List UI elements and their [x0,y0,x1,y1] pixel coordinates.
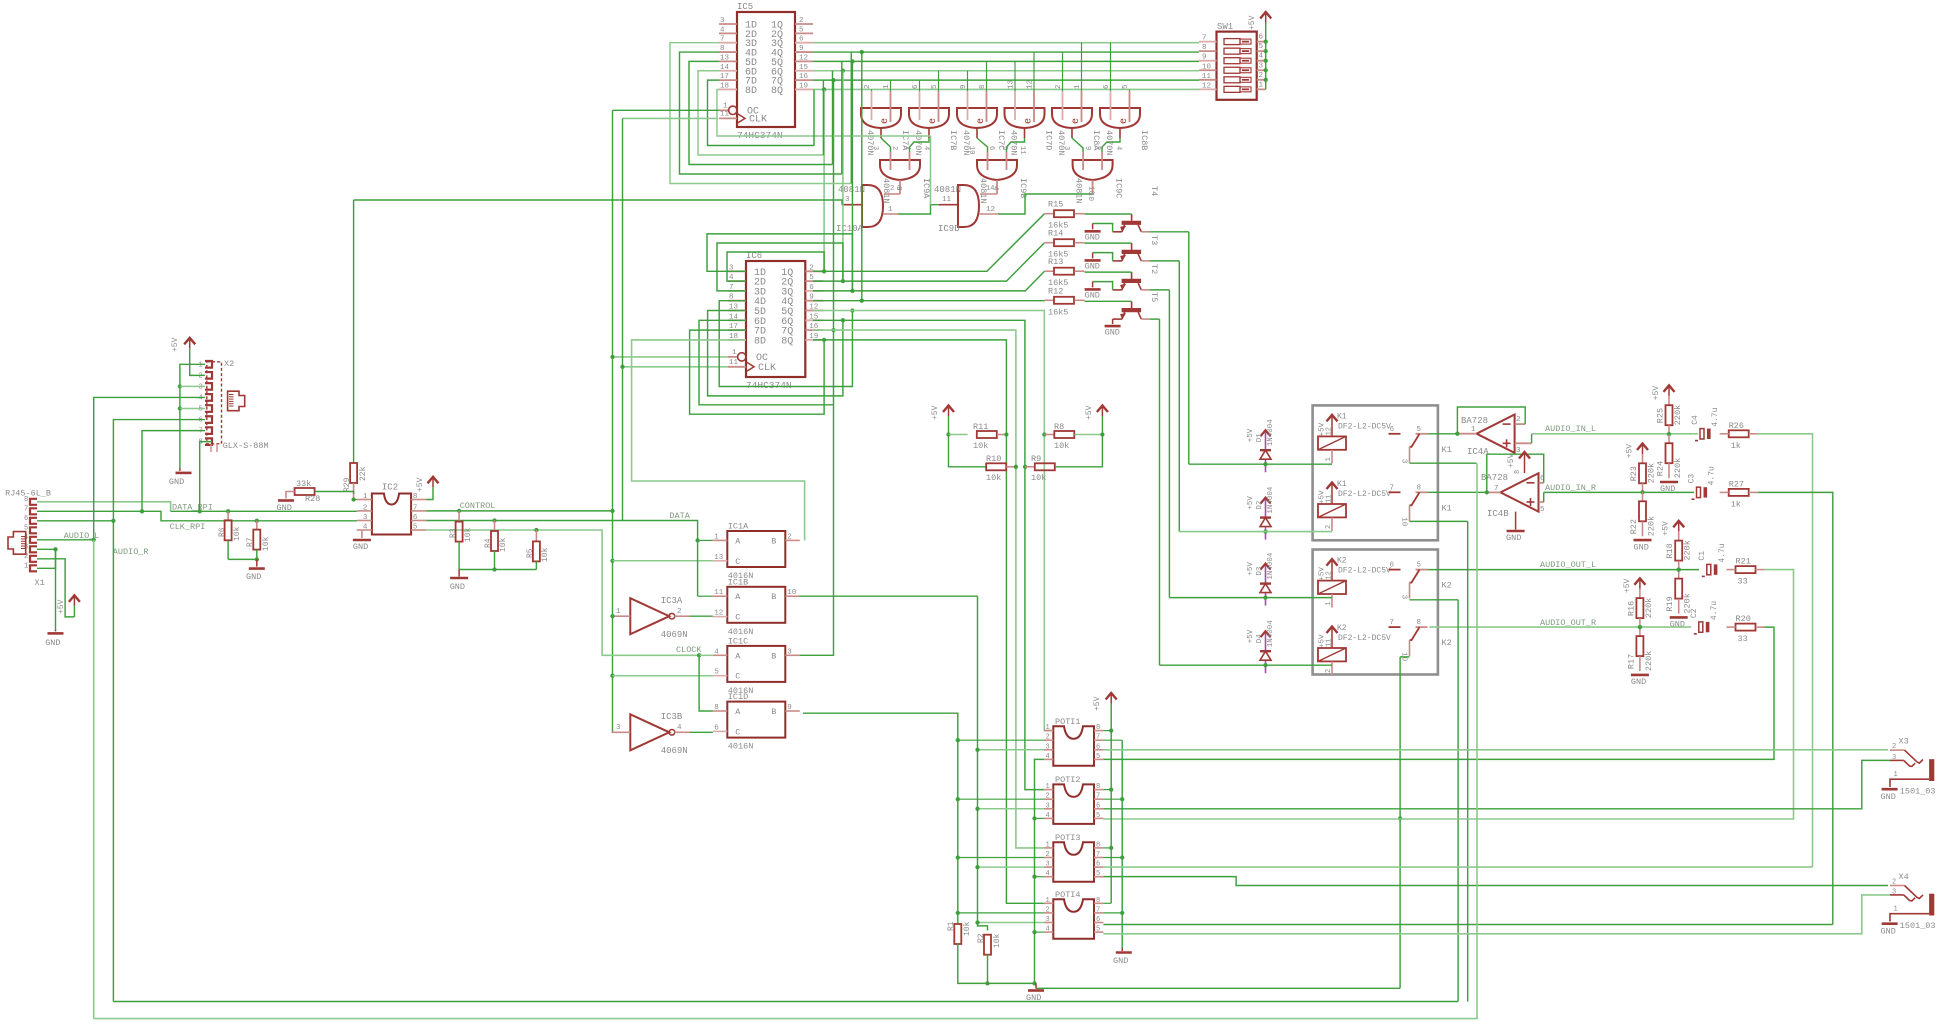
svg-text:8: 8 [979,84,987,89]
svg-text:T3: T3 [1149,235,1159,245]
capacitor C4 4.7u [1700,429,1704,439]
svg-text:4: 4 [714,648,719,656]
svg-text:220k: 220k [1683,540,1693,560]
xor-gate 4070N IC7B [909,108,949,128]
ground R17 [1631,674,1649,677]
svg-text:4070N: 4070N [913,130,923,156]
svg-text:R27: R27 [1729,479,1744,489]
svg-text:GND: GND [1631,677,1646,687]
wire IC8A out to IC9C [1072,138,1083,152]
svg-text:12: 12 [1202,82,1211,90]
IC optocoupler IC2 [372,494,411,535]
svg-text:GND: GND [1085,290,1100,300]
svg-text:C: C [735,613,740,623]
wire IC5 loop 8D [717,89,931,136]
svg-text:6: 6 [24,515,28,523]
svg-text:A: A [735,707,741,717]
svg-text:D1: D1 [1256,433,1264,443]
op-amp BA728 IC4B [1501,473,1539,511]
svg-text:POTI2: POTI2 [1055,775,1081,785]
svg-text:DATA_RPI: DATA_RPI [172,503,213,513]
svg-text:9: 9 [1202,54,1207,62]
svg-text:10k: 10k [986,473,1001,483]
svg-text:1: 1 [1046,841,1050,849]
svg-text:3: 3 [1259,62,1264,70]
svg-text:2: 2 [1046,734,1050,742]
net POTI2.6 to X3 pin3 riser [1103,760,1890,808]
svg-text:GND: GND [1085,261,1100,271]
svg-text:BA728: BA728 [1481,473,1508,483]
svg-text:2: 2 [864,84,872,89]
wire emitter GND T4 [1112,319,1114,324]
svg-text:6: 6 [714,724,719,732]
svg-text:C4: C4 [1691,415,1700,425]
svg-text:AUDIO_R: AUDIO_R [113,547,149,557]
wire CLOCK to IC1C.4/IC1D.8 [699,654,713,656]
svg-text:+5V: +5V [1247,562,1255,576]
ground X2 [176,472,192,475]
svg-text:1501_03: 1501_03 [1900,787,1936,797]
svg-text:DF2-L2-DC5V: DF2-L2-DC5V [1338,422,1391,431]
wire pin4 POTI3 [1035,876,1044,878]
svg-text:5: 5 [1259,43,1264,51]
wire X2.4 AUDIO_L [94,397,205,539]
ground R22 [1634,539,1652,542]
wire K1b.10 down to AUDIO_OUT_R [1410,520,1468,522]
svg-text:1k: 1k [1731,441,1741,451]
+5V supply at SW1 [1265,12,1267,23]
svg-text:8Q: 8Q [771,86,783,97]
svg-text:GND: GND [1881,927,1896,937]
svg-text:10: 10 [1202,63,1212,71]
svg-text:+5V: +5V [1623,578,1632,593]
svg-text:e: e [1071,118,1082,124]
net CLK row IC5 [623,117,719,119]
svg-text:T4: T4 [1149,186,1159,196]
svg-text:R4: R4 [484,538,493,548]
wire X2.8 riser [200,442,212,512]
svg-text:DF2-L2-DC5V: DF2-L2-DC5V [1338,490,1391,499]
potentiometer POTI4 [1053,899,1094,939]
svg-text:IC4B: IC4B [1487,509,1509,519]
svg-text:IC3A: IC3A [661,596,683,606]
and-gate 4081N IC10A [862,185,883,227]
junction 8Q [822,87,826,91]
svg-text:4: 4 [1046,926,1050,934]
svg-text:AUDIO_OUT_R: AUDIO_OUT_R [1540,618,1596,628]
svg-text:14: 14 [720,64,730,72]
ground X4 [1882,922,1898,925]
svg-text:POTI3: POTI3 [1055,833,1081,843]
svg-text:6: 6 [1103,84,1111,89]
svg-text:GND: GND [1113,956,1128,966]
resistor R25 220k [1668,396,1670,405]
svg-text:220k: 220k [1673,458,1683,478]
junction 5Q [850,59,854,63]
xor-gate 4070N IC8A [1052,108,1092,128]
svg-text:4070N: 4070N [1056,130,1066,156]
svg-text:4: 4 [922,146,930,150]
wire IC7B input A [919,80,921,91]
svg-text:7: 7 [24,505,28,513]
wire X2.7 DATA riser [142,431,205,512]
wire POTI pin3 rail [978,596,988,930]
svg-text:R15: R15 [1048,200,1063,210]
resistor R16 220k [1639,589,1641,598]
junction IC6 1Q [822,269,826,273]
svg-text:1: 1 [1046,897,1050,905]
relay coil K2 [1331,559,1333,570]
junction AUDIO_L [92,538,96,542]
analog switch 4016N IC1C [727,646,785,682]
wire IC4B +in [1543,492,1545,502]
ground R3 [450,577,468,580]
transistor T5 [1122,279,1142,283]
svg-text:K2: K2 [1442,638,1452,648]
relay coil K2 [1331,626,1333,637]
svg-text:A: A [735,592,741,602]
svg-text:R11: R11 [973,422,988,432]
+5V supply R11/R10 [948,405,950,416]
svg-text:4: 4 [720,26,725,34]
junction IC6 6Q [841,318,845,322]
wire D3 row to K2 coil [1169,597,1332,599]
svg-text:7: 7 [1096,734,1100,742]
svg-text:5: 5 [799,26,804,34]
svg-text:2: 2 [787,533,792,541]
svg-text:3: 3 [845,196,850,204]
svg-text:12: 12 [714,610,723,618]
svg-text:R17: R17 [1626,654,1636,669]
wire X1.3 X1.1 gnd chain [37,548,56,550]
svg-text:8Q: 8Q [781,336,793,347]
junction GND rail bottom [1032,981,1036,985]
net OC row IC5 [613,109,720,111]
net IC6 2Q to R14 diagonal [813,243,1045,281]
svg-text:X3: X3 [1899,737,1909,747]
op-amp BA728 IC4A [1477,415,1515,453]
svg-text:6: 6 [987,146,995,150]
svg-text:1: 1 [903,146,911,150]
wire IC6 loop 2Q-3D [717,243,843,291]
svg-text:14: 14 [986,185,994,193]
svg-text:IC7D: IC7D [1044,130,1054,150]
net CLK_RPI from X1.7 [37,511,357,521]
wire pin2 POTI2 [958,798,1044,800]
svg-text:IC1A: IC1A [728,522,749,532]
svg-text:GLX-S-88M: GLX-S-88M [223,441,269,451]
wire IC7C input A [967,71,969,91]
svg-text:2: 2 [1516,416,1521,424]
wire pin3 POTI3 [978,866,1044,868]
svg-text:33: 33 [1738,634,1748,644]
svg-text:17: 17 [720,73,729,81]
svg-text:4081N: 4081N [934,185,961,195]
ground POTI rail [1121,948,1123,951]
dip-switch SW1 [1217,32,1257,100]
svg-text:2: 2 [1046,793,1050,801]
svg-text:220k: 220k [1673,405,1683,425]
wire IC1D.9 to POTI pin2 rail [803,713,958,922]
svg-text:4: 4 [199,394,203,402]
svg-text:8: 8 [1096,897,1100,905]
ground R24 [1660,481,1678,484]
svg-text:POTI1: POTI1 [1055,717,1081,727]
wire K2a.5 AUDIO_OUT_L start [1428,569,1430,571]
junction 7Q [831,78,835,82]
svg-text:8: 8 [1202,44,1207,52]
svg-text:AUDIO_IN_L: AUDIO_IN_L [1545,424,1596,434]
svg-text:33k: 33k [296,479,311,489]
svg-text:R23: R23 [1629,466,1639,481]
svg-text:220k: 220k [1644,598,1654,618]
svg-text:3: 3 [1046,743,1050,751]
svg-text:D4: D4 [1256,634,1264,644]
wire IC8B input A [1110,43,1112,91]
svg-text:+5V: +5V [171,337,180,352]
svg-text:GND: GND [1881,792,1896,802]
svg-text:8: 8 [24,496,28,504]
wire IC4A +in [1531,434,1533,444]
net AUDIO_OUT_L [1429,569,1699,571]
resistor R3 10k [458,511,460,522]
resistor R13 16k5 [1045,270,1054,272]
wire K1a.3 down to AUDIO_OUT_L [1410,462,1477,464]
svg-text:18: 18 [720,82,729,90]
net POTI3.6 AUDIO_IN_L end [1103,866,1812,868]
wire collector T3 [1150,231,1189,233]
svg-text:13: 13 [1008,79,1016,89]
svg-text:R22: R22 [1629,519,1639,534]
net IC6 6Q to POTI2 [813,320,1044,789]
net POTI3.5 to X4 pin2 step [1103,877,1888,886]
wire IC8A input A [1062,52,1064,91]
svg-text:CLK: CLK [758,363,776,374]
svg-text:IC9B: IC9B [1018,178,1028,198]
svg-text:AUDIO_OUT_L: AUDIO_OUT_L [1540,560,1596,570]
resistor R28 33k [295,488,315,495]
+5V supply POTI rail [1110,693,1112,704]
svg-text:4.7u: 4.7u [1718,543,1727,562]
svg-text:+5V: +5V [1247,496,1255,510]
svg-text:R16: R16 [1626,601,1636,616]
ground X1 [55,549,57,629]
svg-text:12: 12 [1027,80,1035,89]
resistor R14 16k5 [1045,242,1054,244]
svg-text:8: 8 [1096,841,1100,849]
svg-text:R29: R29 [343,477,352,492]
wire IC4B feedback [1487,454,1544,492]
resistor R22 220k [1642,492,1644,501]
svg-text:e: e [880,118,891,124]
svg-text:8: 8 [413,493,418,501]
ground R28 [286,492,295,499]
svg-text:R26: R26 [1729,421,1744,431]
svg-text:11: 11 [714,589,724,597]
svg-text:5: 5 [1417,426,1422,434]
svg-text:K1: K1 [1442,503,1452,513]
svg-text:+5V: +5V [931,405,940,420]
wire CONTROL vertical [612,110,614,732]
wire IC7D input A [1014,61,1016,91]
svg-text:SW1: SW1 [1217,22,1233,32]
net X1.6 AUDIO_R [37,520,113,522]
svg-text:1: 1 [24,562,28,570]
svg-text:+5V: +5V [1085,405,1094,420]
capacitor C2 4.7u [1699,622,1703,632]
svg-text:R1: R1 [947,921,956,931]
diode D4 1N4004 [1265,632,1267,666]
svg-text:7: 7 [1202,35,1207,43]
transistor T3 [1122,221,1142,225]
wire loop riser 3D-4Q [850,52,852,183]
svg-text:GND: GND [169,477,184,487]
svg-text:R12: R12 [1048,286,1063,296]
wire IC6 loop 1D feed [707,234,852,291]
svg-text:6: 6 [1096,743,1100,751]
svg-text:+5V: +5V [1247,428,1255,442]
svg-text:B: B [771,592,776,602]
wire IC5 loop 6D [698,71,823,155]
wire AUDIO_IN_L to POTI3 [1758,434,1813,867]
svg-text:DF2-L2-DC5V: DF2-L2-DC5V [1338,634,1391,643]
wire IC7C out to IC9B [977,138,988,152]
svg-text:R25: R25 [1656,408,1666,423]
wire IC8A input B [1081,43,1083,91]
potentiometer POTI2 [1053,784,1094,824]
wire pin2 POTI1 [958,739,1044,741]
svg-text:8: 8 [1096,783,1100,791]
svg-text:1: 1 [723,102,728,110]
net IC6 8Q to POTI4 [813,340,1044,903]
svg-text:IC7B: IC7B [948,130,958,150]
svg-text:B: B [771,651,776,661]
svg-text:A: A [735,651,741,661]
junction IC6 5Q [850,308,854,312]
svg-text:8: 8 [1417,619,1422,627]
svg-text:C: C [735,557,740,567]
svg-text:3: 3 [1062,146,1070,150]
svg-text:10k: 10k [1031,473,1046,483]
svg-text:19: 19 [799,82,808,90]
net 6Q row [813,70,1199,72]
wire IC7A input B [890,80,892,91]
net AUDIO_IN_R [1544,491,1694,493]
svg-text:74HC374N: 74HC374N [746,380,792,391]
wire IC5 loop 4D [680,52,842,174]
wire AUDIO_OUT_L to POTI2 [1103,570,1793,819]
svg-text:B: B [771,707,776,717]
junction IC6 8Q [822,338,826,342]
svg-text:3: 3 [1046,802,1050,810]
ground X3 [1882,788,1898,791]
junction D1 [1263,462,1267,466]
svg-text:9: 9 [960,84,968,89]
svg-text:13: 13 [714,554,724,562]
svg-text:GND: GND [1670,620,1685,630]
svg-text:K1: K1 [1337,412,1347,421]
junction R25/R24 [1667,432,1671,436]
ground bottom [1028,989,1044,992]
svg-text:e: e [1024,118,1035,124]
svg-text:4: 4 [363,524,368,532]
resistor R19 220k [1678,570,1680,579]
wire X1.2 to +5V arrow [37,559,74,617]
svg-text:CLK: CLK [749,114,767,125]
svg-text:IC10A: IC10A [836,224,864,234]
svg-text:IC1C: IC1C [728,636,748,646]
wire CONTROL net vertical taps [610,509,614,513]
svg-text:6: 6 [799,36,804,44]
svg-text:10k: 10k [973,441,988,451]
svg-text:R21: R21 [1736,557,1751,567]
svg-text:1: 1 [732,349,737,357]
wire X2 pins 1/3/5 gnd chain [180,364,205,408]
svg-text:1N4004: 1N4004 [1267,620,1275,648]
svg-text:2: 2 [677,608,682,616]
svg-text:R9: R9 [1031,454,1041,464]
svg-text:C1: C1 [1698,551,1707,561]
svg-text:1: 1 [1894,906,1898,914]
wire base T4 [1085,300,1132,302]
svg-text:K2: K2 [1442,581,1452,591]
svg-text:5: 5 [199,406,203,414]
resistor R9 10k [1023,465,1027,469]
ground [1085,259,1101,262]
svg-text:3: 3 [720,17,725,25]
capacitor C3 4.7u [1697,487,1701,497]
wire IC6 loop 8Q-7D [690,330,825,414]
wire AUDIO_L bottom bus [94,463,1477,1018]
svg-text:6: 6 [1259,34,1264,42]
svg-text:IC9D: IC9D [938,224,960,234]
junction IC6 2Q [841,279,845,283]
svg-text:1k: 1k [1731,499,1741,509]
svg-text:K2: K2 [1337,624,1347,633]
svg-text:+5V: +5V [1652,386,1661,401]
svg-text:3: 3 [1892,888,1896,896]
wire emitter GND T2 [1093,253,1113,261]
resistor R29 22k [353,200,355,463]
svg-text:15: 15 [799,64,809,72]
svg-text:2: 2 [1892,743,1896,751]
svg-text:R2: R2 [977,933,986,943]
+5V supply above R25 [1668,385,1670,396]
net 7Q row [813,79,1199,81]
wire X2.2 +5V [190,348,205,375]
net CLK row IC6 [623,366,729,368]
junction R16/R17 [1638,625,1642,629]
svg-text:GND: GND [353,542,368,552]
svg-text:1501_03: 1501_03 [1900,921,1936,931]
svg-text:GND: GND [450,582,465,592]
ground IC4B [1515,512,1517,530]
wire loop riser 4D-5Q [841,61,843,174]
svg-text:5: 5 [1417,562,1422,570]
relay coil K1 [1331,414,1333,425]
resistor R12 16k5 [1045,299,1054,301]
net IC6 1Q to R15 diagonal [813,214,1045,272]
xor-gate 4070N IC7A [861,108,901,128]
svg-text:10k: 10k [233,526,242,541]
svg-text:DATA: DATA [669,511,690,521]
svg-text:9: 9 [1083,146,1091,150]
resistor R24 220k [1668,434,1670,443]
svg-text:T5: T5 [1149,292,1159,302]
svg-text:+5V: +5V [1093,696,1102,711]
resistor R10 10k [949,435,987,467]
svg-text:GND: GND [1506,533,1521,543]
